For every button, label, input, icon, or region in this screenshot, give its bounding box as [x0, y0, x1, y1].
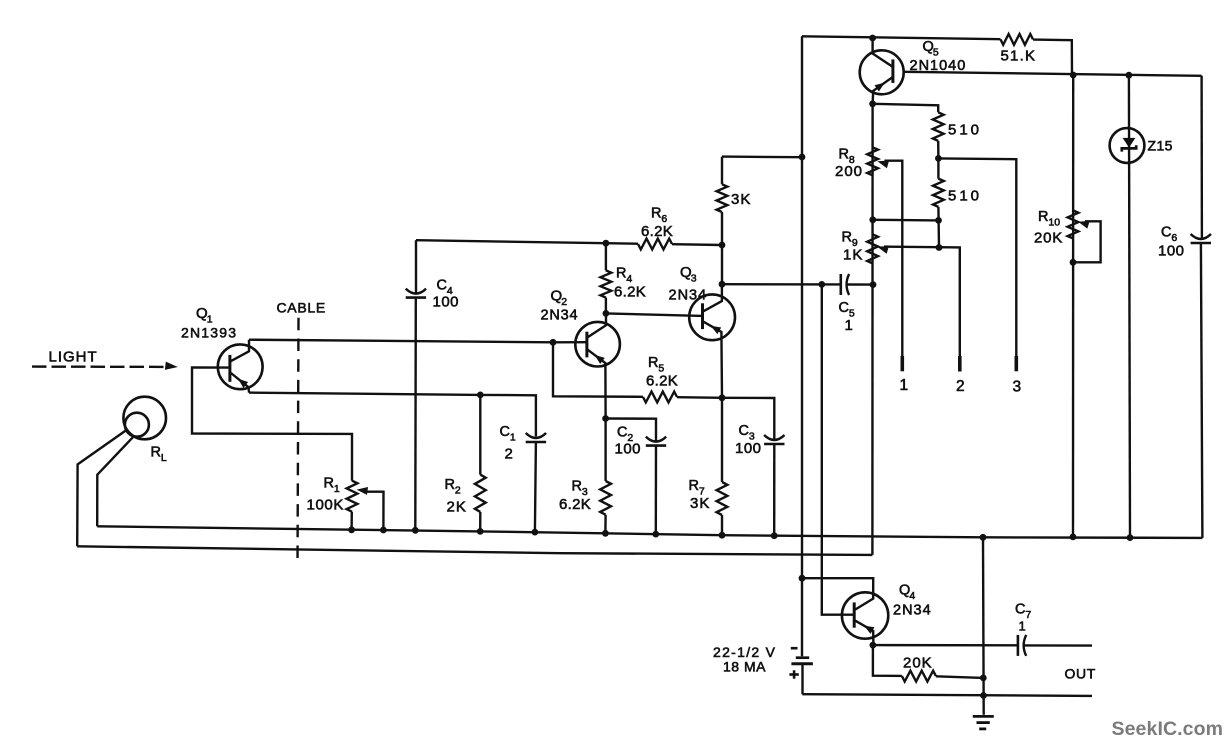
node rail R1 bottom — [348, 526, 355, 533]
wire C7 to OUT — [1024, 644, 1092, 647]
svg-text:LIGHT: LIGHT — [49, 349, 98, 366]
capacitor C5 — [839, 274, 842, 295]
svg-text:R: R — [839, 147, 849, 163]
capacitor C1 — [526, 433, 546, 438]
capacitor C2 — [646, 437, 666, 442]
node R10 wiper bottom — [1070, 259, 1077, 266]
transistor Q2 circle+base bar — [575, 322, 620, 367]
resistor R10 wiper arrow — [1078, 221, 1090, 229]
transistor Q5 collector lead — [873, 38, 893, 67]
battery plate short (minus) — [796, 656, 809, 659]
transistor Q3 emitter arrow — [711, 326, 722, 334]
svg-text:R: R — [151, 445, 161, 461]
resistor 510 lower bottom lead — [937, 207, 940, 247]
svg-text:100: 100 — [615, 441, 642, 458]
transistor Q2 emitter arrow — [595, 355, 605, 364]
wire 3K top — [722, 155, 802, 158]
zener Z15 triangle — [1123, 138, 1136, 148]
node R6 / R4 / C4 wire — [603, 240, 610, 247]
svg-text:2: 2 — [561, 296, 567, 308]
svg-text:1: 1 — [1019, 619, 1026, 634]
svg-text:6.2K: 6.2K — [641, 223, 673, 240]
capacitor C1 bottom lead — [535, 442, 536, 532]
resistor 510 upper body — [933, 112, 944, 141]
transistor Q3 circle+base bar — [689, 294, 735, 340]
resistor 510 lower body — [933, 179, 944, 207]
wire top rail right — [1033, 40, 1072, 75]
terminal 3 bold tip — [1014, 356, 1018, 371]
transistor Q1 emitter arrow — [238, 379, 248, 388]
resistor 3K body — [717, 184, 728, 212]
svg-text:1: 1 — [334, 483, 340, 495]
wire V1129 zener branch — [1129, 75, 1130, 537]
svg-text:3K: 3K — [731, 191, 751, 208]
wire Q1 collector to Q2 base — [249, 340, 587, 343]
transistor Q4 emitter arrow — [864, 626, 875, 634]
resistor 20K body — [902, 671, 936, 682]
wire Q2 emitter to C2 — [606, 419, 656, 442]
ground bar 1 — [973, 715, 994, 718]
svg-text:2: 2 — [455, 485, 461, 497]
wire R8 bottom junction — [873, 219, 939, 222]
resistor R4 bottom lead — [605, 298, 607, 314]
transistor Q1 collector lead — [231, 340, 250, 362]
resistor 51.K body — [1001, 34, 1034, 45]
resistor 3K top lead — [721, 157, 723, 185]
resistor R3 bottom lead — [604, 515, 607, 534]
resistor R2 body — [475, 475, 486, 512]
battery plate long (plus) — [791, 662, 813, 665]
svg-text:2: 2 — [956, 378, 965, 395]
battery bottom lead — [801, 664, 803, 694]
node Q1 emitter / R2 — [477, 392, 484, 399]
resistor R2 bottom lead — [479, 512, 481, 532]
svg-text:L: L — [161, 452, 167, 464]
capacitor C6 bottom lead — [1201, 243, 1203, 538]
wire Q5 emitter to 510 — [873, 104, 939, 113]
wire bottom out rail — [802, 694, 1092, 696]
svg-text:100: 100 — [1158, 243, 1185, 260]
transistor Q4 circle+base bar — [842, 592, 888, 638]
resistor R1 body — [347, 481, 358, 512]
svg-text:C: C — [1161, 225, 1171, 241]
ground bar 2 — [977, 721, 990, 724]
svg-text:R: R — [689, 478, 699, 494]
LIGHT dashed arrow line — [32, 365, 166, 368]
node rail R1 wiper — [380, 527, 387, 534]
transistor Q5 emitter arrow — [875, 83, 885, 92]
resistor R6 left lead — [606, 242, 638, 245]
wire Q1 base route — [192, 367, 352, 480]
wire Q5 emitter chain V872 — [871, 104, 874, 555]
node Q5 base / Z15 top — [1126, 72, 1133, 79]
svg-text:C: C — [500, 424, 510, 440]
resistor 3K bottom lead — [721, 212, 723, 284]
capacitor C4 bottom lead — [414, 298, 417, 531]
svg-text:2N34: 2N34 — [541, 308, 579, 324]
svg-text:7: 7 — [1025, 609, 1031, 621]
battery plus sign — [789, 673, 798, 676]
transistor Q3 emitter lead — [703, 322, 722, 398]
wire Q3 base — [606, 313, 703, 316]
node R9 wiper crossing — [936, 244, 943, 251]
resistor R9 wiper arrow — [877, 246, 889, 254]
svg-text:18 MA: 18 MA — [723, 659, 766, 675]
svg-text:5: 5 — [933, 47, 939, 59]
wire bottom rail (common) — [97, 526, 1202, 538]
svg-text:1: 1 — [900, 377, 909, 394]
wire lower return rail — [77, 546, 872, 555]
svg-text:510: 510 — [948, 188, 982, 205]
resistor R1 wiper — [365, 492, 384, 530]
resistor 510 upper bottom lead — [937, 141, 940, 159]
svg-text:200: 200 — [835, 163, 863, 180]
capacitor C3 bottom lead — [773, 444, 775, 536]
node rail R2 — [477, 528, 484, 535]
svg-text:C: C — [739, 423, 749, 439]
node rail R3 — [602, 530, 609, 537]
resistor R7 top lead — [721, 398, 723, 482]
svg-text:R: R — [842, 230, 852, 246]
svg-text:OUT: OUT — [1065, 666, 1096, 682]
transistor Q1 emitter lead — [231, 373, 249, 393]
svg-text:2N34: 2N34 — [893, 603, 932, 619]
node Q4 emitter — [870, 642, 877, 649]
resistor R9 wiper — [884, 247, 960, 356]
resistor R8 wiper arrow — [877, 161, 889, 169]
photocell RL lead (outer) diagonal+vertical — [77, 430, 126, 546]
resistor R5 right lead — [677, 396, 722, 399]
svg-text:2N34: 2N34 — [669, 288, 708, 304]
capacitor C2 bottom lead — [655, 446, 658, 534]
resistor R8 wiper — [885, 161, 903, 356]
resistor R10 body — [1068, 210, 1079, 238]
resistor 20K right lead — [936, 676, 983, 678]
wire Q4 emitter to C7 — [873, 644, 1018, 647]
resistor R7 bottom lead — [721, 515, 723, 535]
node rail R7 — [719, 532, 726, 539]
CABLE dashed line — [298, 318, 299, 566]
node 20K right — [980, 675, 987, 682]
svg-text:R: R — [651, 206, 661, 222]
node rail ground branch — [980, 534, 987, 541]
svg-text:100: 100 — [433, 294, 460, 311]
svg-text:510: 510 — [948, 122, 982, 139]
svg-text:2K: 2K — [447, 499, 467, 516]
capacitor C6 — [1191, 234, 1211, 239]
svg-text:6.2K: 6.2K — [559, 496, 591, 513]
transistor Q4 emitter lead — [855, 621, 873, 645]
wire V802 supply — [801, 36, 803, 656]
wire Q2 base to R5 — [553, 342, 643, 397]
resistor R3 body — [600, 481, 611, 515]
node R8 bottom — [869, 216, 876, 223]
node Q2 base / R5 — [550, 339, 557, 346]
svg-text:1K: 1K — [843, 247, 863, 264]
svg-text:R: R — [1038, 209, 1048, 225]
capacitor C3 — [764, 435, 784, 440]
svg-text:3: 3 — [691, 273, 697, 285]
ground bar 3 — [979, 728, 986, 731]
svg-text:6.2K: 6.2K — [614, 284, 646, 301]
LIGHT arrowhead — [165, 362, 178, 370]
wire C6 top lead — [1200, 76, 1203, 239]
svg-text:1: 1 — [845, 317, 853, 334]
resistor 510 lower top lead — [937, 158, 939, 178]
svg-text:10: 10 — [1048, 217, 1060, 229]
svg-text:20K: 20K — [903, 655, 933, 672]
wire C4 top to Q2 collector — [416, 240, 606, 243]
svg-text:3K: 3K — [690, 495, 710, 512]
wire top rail left — [802, 36, 1001, 39]
svg-text:Z15: Z15 — [1148, 138, 1173, 154]
capacitor C5 right lead — [847, 283, 873, 286]
terminal 2 bold tip — [958, 356, 962, 372]
transistor Q5 emitter lead — [873, 77, 893, 104]
transistor Q5 circle+base bar — [860, 50, 904, 94]
node C5 right / R9 bottom — [870, 281, 877, 288]
resistor R2 top lead — [479, 395, 481, 475]
resistor R1 bottom lead — [350, 512, 353, 530]
wire Q5 base rail — [904, 72, 1202, 76]
svg-text:SeekIC.com: SeekIC.com — [1112, 718, 1224, 740]
svg-text:R: R — [572, 479, 582, 495]
photocell RL lead (inner) diagonal+vertical — [97, 437, 133, 527]
svg-text:R: R — [616, 266, 626, 282]
resistor R10 wiper — [1076, 221, 1101, 262]
wire Q1 emitter to C1 top — [249, 393, 536, 437]
node top rail / Q5 collector — [869, 35, 876, 42]
capacitor C7 — [1017, 635, 1020, 656]
node rail C2 — [652, 531, 659, 538]
node Q5 base / 51K right — [1070, 72, 1077, 79]
svg-text:20K: 20K — [1034, 230, 1063, 247]
node rail C1 — [532, 529, 539, 536]
resistor R9 body — [867, 234, 878, 263]
node R4 bottom / Q3 base — [603, 310, 610, 317]
svg-text:R: R — [324, 476, 334, 492]
svg-text:6.2K: 6.2K — [646, 373, 678, 390]
resistor R7 body — [717, 482, 728, 515]
svg-text:3: 3 — [1013, 379, 1022, 396]
svg-text:51.K: 51.K — [1001, 48, 1037, 65]
node Q5 emitter — [869, 100, 876, 107]
node Q3 collector / C5 — [719, 281, 726, 288]
photocell RL inner circle — [125, 413, 149, 437]
node rail C4 — [412, 527, 419, 534]
node bottom rail / ground — [980, 692, 987, 699]
resistor R6 right lead — [672, 243, 722, 246]
node Q2 emitter / C2 / R3 — [602, 415, 609, 422]
terminal 1 bold tip — [900, 356, 904, 371]
photocell RL outer circle — [123, 397, 166, 440]
resistor R4 body — [601, 270, 612, 297]
resistor R8 body — [867, 147, 878, 175]
svg-text:C: C — [839, 300, 849, 316]
node C5 left / V822 — [818, 281, 825, 288]
battery minus sign — [791, 647, 798, 650]
wire terminal 3 — [938, 158, 1016, 356]
zener Z15 circle — [1110, 128, 1145, 163]
wire V983 ground branch — [982, 537, 985, 715]
wire Q3 collector to C5 — [722, 283, 841, 286]
transistor Q1 circle+base bar — [218, 344, 263, 389]
node 510 lower bottom — [935, 217, 942, 224]
node rail Z15 — [1127, 534, 1134, 541]
transistor Q2 collector lead — [587, 313, 606, 337]
svg-text:100: 100 — [735, 440, 762, 457]
svg-text:2: 2 — [505, 446, 513, 463]
node rail R10 — [1070, 534, 1077, 541]
wire Q3 emitter to C3 — [722, 398, 774, 440]
transistor Q2 emitter lead — [587, 349, 605, 418]
svg-text:CABLE: CABLE — [277, 300, 326, 316]
transistor Q3 collector lead — [703, 284, 722, 311]
resistor R4 top lead — [605, 243, 607, 270]
node 510 junction — [935, 155, 942, 162]
resistor R3 top lead — [604, 419, 606, 482]
resistor 20K feedback lead — [873, 645, 902, 676]
resistor R1 wiper arrow — [357, 487, 368, 495]
node R6 right / 3K — [719, 242, 726, 249]
node Q4 collector / battery top — [799, 575, 806, 582]
svg-text:C: C — [617, 425, 627, 441]
svg-text:1: 1 — [510, 432, 516, 444]
resistor R5 body — [643, 392, 677, 403]
svg-text:C: C — [437, 278, 447, 294]
node 3K top / V802 — [799, 154, 806, 161]
capacitor C4 — [406, 289, 426, 294]
svg-text:4: 4 — [909, 590, 915, 602]
capacitor C4 top lead — [415, 240, 417, 293]
wire V1073 — [1072, 75, 1075, 537]
node rail C3 — [771, 532, 778, 539]
resistor R6 body — [638, 239, 672, 250]
svg-text:2N1393: 2N1393 — [181, 325, 237, 341]
svg-text:100K: 100K — [307, 497, 344, 514]
svg-text:R: R — [648, 355, 658, 371]
zener Z15 bar — [1122, 145, 1136, 151]
svg-text:C: C — [1015, 602, 1025, 618]
wire V822 Q4 base feed — [822, 284, 854, 614]
svg-text:R: R — [445, 477, 455, 493]
wire Q4 collector feed — [802, 578, 873, 609]
node Q3 emitter / R5 / C3 — [719, 394, 726, 401]
